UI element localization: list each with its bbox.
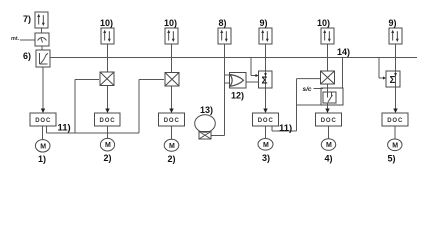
svg-text:DOC: DOC xyxy=(164,118,180,124)
svg-text:11): 11) xyxy=(58,123,71,134)
svg-text:M: M xyxy=(263,142,269,149)
svg-text:Σ: Σ xyxy=(390,75,396,86)
svg-text:mt.: mt. xyxy=(11,36,20,42)
svg-text:12): 12) xyxy=(231,91,244,101)
svg-text:DOC: DOC xyxy=(35,118,51,124)
svg-text:M: M xyxy=(40,143,46,150)
svg-text:2): 2) xyxy=(168,154,176,164)
svg-text:9): 9) xyxy=(260,18,268,28)
svg-text:14): 14) xyxy=(337,47,350,57)
svg-text:6): 6) xyxy=(23,51,31,61)
svg-text:10): 10) xyxy=(164,18,177,28)
svg-text:10): 10) xyxy=(317,18,330,28)
svg-text:2): 2) xyxy=(104,153,112,163)
svg-text:DOC: DOC xyxy=(258,118,274,124)
svg-text:13): 13) xyxy=(200,105,213,115)
svg-text:M: M xyxy=(392,142,398,149)
svg-text:M: M xyxy=(326,142,332,149)
svg-text:3): 3) xyxy=(262,153,270,163)
svg-text:s/c: s/c xyxy=(303,86,312,93)
svg-text:7): 7) xyxy=(23,14,31,24)
svg-text:M: M xyxy=(105,142,111,149)
svg-text:DOC: DOC xyxy=(100,118,116,124)
svg-text:Σ: Σ xyxy=(262,76,268,87)
svg-text:1): 1) xyxy=(38,154,46,164)
svg-text:DOC: DOC xyxy=(387,118,403,124)
svg-text:M: M xyxy=(169,143,175,150)
svg-text:5): 5) xyxy=(388,154,396,164)
svg-text:8): 8) xyxy=(219,18,227,28)
svg-text:10): 10) xyxy=(100,18,113,28)
svg-text:DOC: DOC xyxy=(321,118,337,124)
svg-text:9): 9) xyxy=(389,18,397,28)
svg-text:11): 11) xyxy=(279,123,292,134)
svg-text:4): 4) xyxy=(325,154,333,164)
